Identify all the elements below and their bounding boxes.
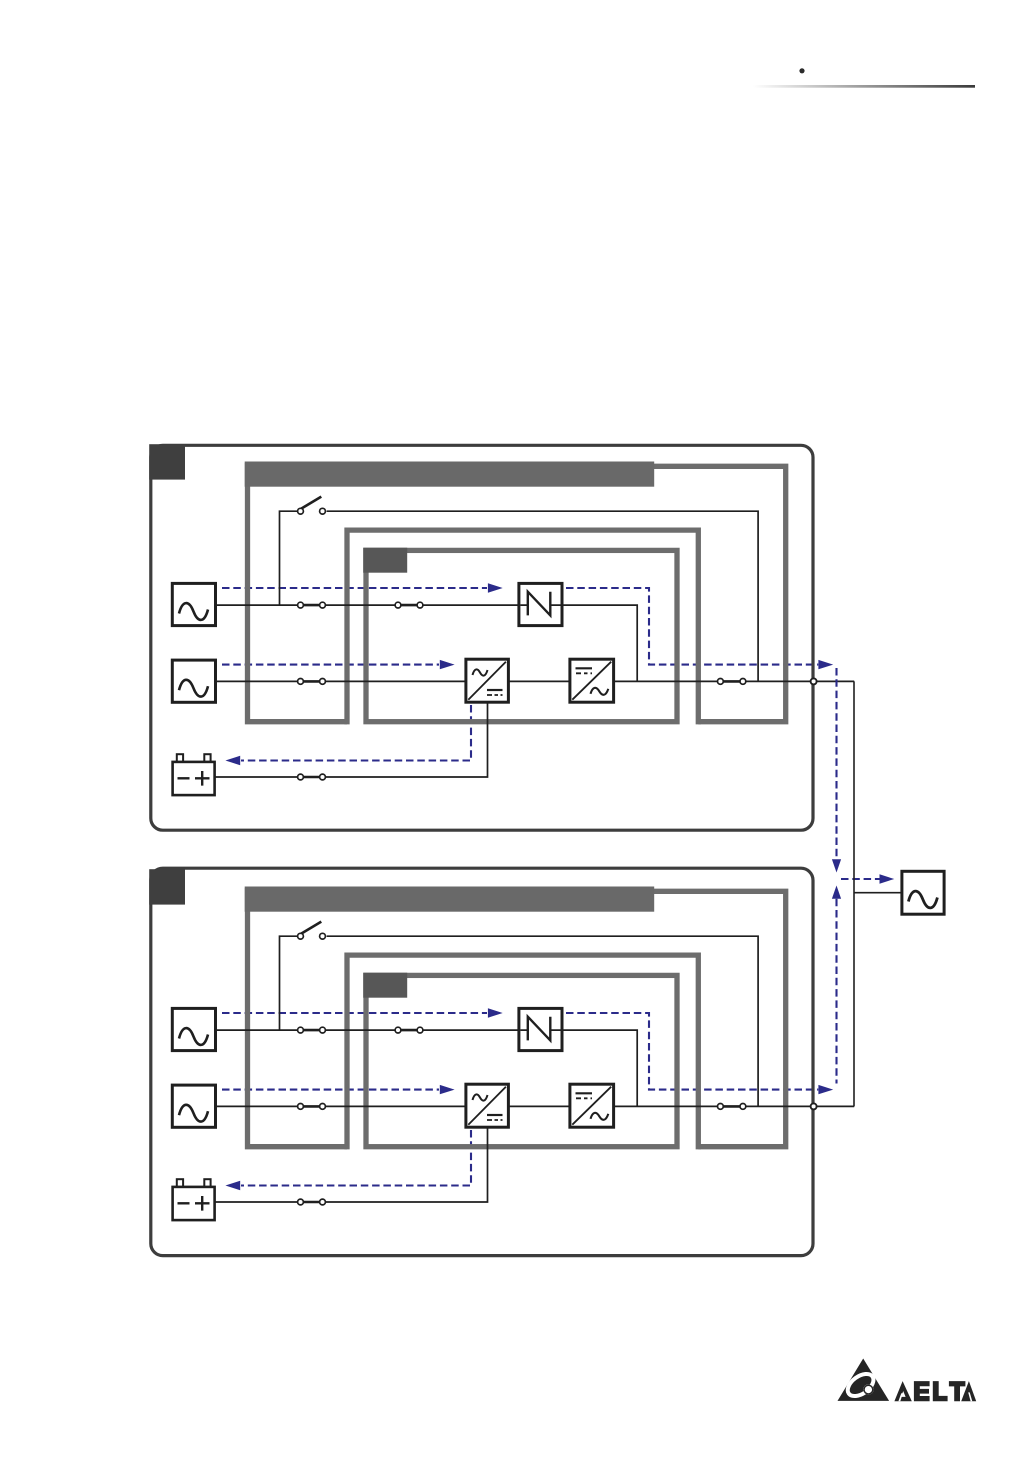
common dashed flow: UPS2 output up to load junction xyxy=(835,899,837,1084)
UPS unit 1 corner label block xyxy=(149,444,185,479)
dashed rectifier-input flow line (AC source 2 to rectifier) xyxy=(222,664,439,666)
rectifier input breaker Q4 xyxy=(298,679,326,685)
static bypass breaker Q2 xyxy=(395,602,423,608)
maintenance bypass switch blade (open) xyxy=(300,497,321,510)
arrowhead toward output bus xyxy=(818,660,833,669)
arrowhead toward rectifier xyxy=(440,660,455,669)
output node 2 on enclosure edge xyxy=(811,1103,817,1109)
wire: inverter to output node xyxy=(614,1105,855,1107)
arrowhead toward static switch N xyxy=(488,583,503,592)
common dashed flow: UPS1 output down to load junction xyxy=(835,668,837,859)
bypass input breaker Q1 xyxy=(298,1027,326,1033)
maintenance bypass switch blade (open) xyxy=(300,922,321,935)
static transfer switch U1 (N box) xyxy=(519,583,562,625)
AC source 2 (rectifier input) xyxy=(172,1085,215,1127)
header gradient rule xyxy=(753,85,975,88)
AC source 1 (bypass input) xyxy=(172,583,215,625)
gray section box: output column xyxy=(654,466,786,721)
gray section box: output column xyxy=(654,891,786,1146)
wire: rectifier to inverter xyxy=(508,680,570,682)
gray section box: inverter module xyxy=(366,550,677,721)
load (AC output) box xyxy=(902,871,944,914)
wire: maintenance bypass to output junction xyxy=(327,511,758,681)
AC source 2 (rectifier input) xyxy=(172,660,215,702)
maintenance bypass switch Q3 contacts xyxy=(298,933,326,939)
wire: battery to rectifier DC input xyxy=(215,702,487,777)
dashed bypass-input flow arrow line (AC source 1 to static switch) xyxy=(222,587,487,589)
inverter module label block xyxy=(363,548,407,573)
wire: static switch output down to output bus xyxy=(562,1030,637,1106)
inverter module label block xyxy=(363,973,407,998)
UPS unit 2 corner label block xyxy=(149,869,185,904)
dashed battery-charge flow line (rectifier down to battery) xyxy=(241,1130,471,1186)
wire: maintenance bypass to output junction xyxy=(327,936,758,1106)
inverter U3 (DC/AC converter) xyxy=(570,1084,614,1127)
UPS unit 2 enclosure (dashed-flow underlay) xyxy=(222,1013,818,1186)
static bypass breaker Q2 xyxy=(395,1027,423,1033)
output breaker Q5 xyxy=(718,1104,746,1110)
UPS unit 1 cabinet title bar xyxy=(245,462,655,487)
wire: AC source 1 to static switch xyxy=(216,1029,519,1031)
Delta logo wordmark DELTA xyxy=(894,1381,976,1401)
rectifier input breaker Q4 xyxy=(298,1104,326,1110)
output breaker Q5 xyxy=(718,679,746,685)
maintenance bypass switch Q3 contacts xyxy=(298,508,326,514)
arrowhead down into load junction xyxy=(832,859,841,872)
dashed rectifier-input flow line (AC source 2 to rectifier) xyxy=(222,1089,439,1091)
gray section box: power module outline xyxy=(347,955,698,1149)
AC source 1 (bypass input) xyxy=(172,1008,215,1050)
wire: inverter to output node xyxy=(614,680,855,682)
battery BT2 xyxy=(173,1179,215,1220)
wire: AC source 2 to rectifier xyxy=(216,680,466,682)
UPS unit 2 cabinet title bar xyxy=(245,887,655,912)
wire: AC source 1 to static switch xyxy=(216,604,519,606)
dashed static-bypass output flow line xyxy=(566,588,818,665)
wire: battery to rectifier DC input xyxy=(215,1127,487,1202)
UPS unit 1 enclosure (dashed-flow underlay) xyxy=(222,588,818,761)
Delta logo triangle xyxy=(838,1359,890,1401)
wire: static switch output down to output bus xyxy=(562,605,637,681)
gray section box: input/bypass column (left wall + floor) xyxy=(248,463,348,722)
arrowhead up into load junction xyxy=(832,886,841,899)
rectifier U2 (AC/DC converter) xyxy=(466,659,509,702)
battery breaker Q6 xyxy=(298,774,326,780)
arrowhead toward static switch N xyxy=(488,1008,503,1017)
wire: rectifier to inverter xyxy=(508,1105,570,1107)
wire: output bus to load xyxy=(854,892,902,894)
UPS unit 1 outer rounded enclosure xyxy=(151,445,813,830)
arrowhead toward output bus xyxy=(818,1085,833,1094)
battery breaker Q6 xyxy=(298,1199,326,1205)
dashed battery-charge flow line (rectifier down to battery) xyxy=(241,705,471,761)
common dashed flow: junction to load xyxy=(841,878,880,880)
bypass input breaker Q1 xyxy=(298,602,326,608)
wire: branch up to maintenance bypass switch xyxy=(280,936,298,1030)
gray section box: inverter module xyxy=(366,975,677,1146)
arrowhead toward rectifier xyxy=(440,1085,455,1094)
battery BT1 xyxy=(173,754,215,795)
dashed bypass-input flow arrow line (AC source 1 to static switch) xyxy=(222,1012,487,1014)
arrowhead toward battery xyxy=(225,1181,240,1190)
output node 1 on enclosure edge xyxy=(811,678,817,684)
output bus wire joining both UPS outputs xyxy=(853,681,855,1106)
wire: branch up to maintenance bypass switch xyxy=(280,511,298,605)
arrowhead into load xyxy=(880,874,895,883)
gray section box: power module outline xyxy=(347,530,698,724)
dashed static-bypass output flow line xyxy=(566,1013,818,1090)
UPS unit 2 outer rounded enclosure xyxy=(151,868,813,1255)
inverter U3 (DC/AC converter) xyxy=(570,659,614,702)
static transfer switch U1 (N box) xyxy=(519,1008,562,1050)
gray section box: input/bypass column (left wall + floor) xyxy=(248,888,348,1147)
header bullet dot xyxy=(799,68,804,73)
arrowhead toward battery xyxy=(225,756,240,765)
rectifier U2 (AC/DC converter) xyxy=(466,1084,509,1127)
wire: AC source 2 to rectifier xyxy=(216,1105,466,1107)
